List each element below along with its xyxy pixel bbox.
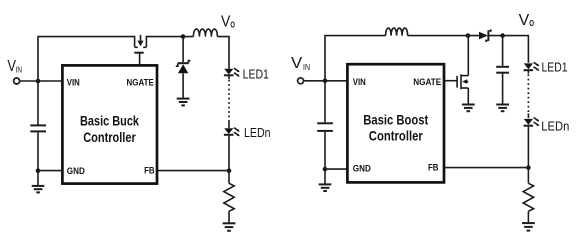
svg-text:VIN: VIN [67,78,80,88]
svg-text:LEDn: LEDn [244,125,271,140]
wire Q1 to switch node [146,36,193,38]
node output cap junction [500,33,505,38]
capacitor C2 (input cap, right circuit) [317,81,333,168]
LED LED1 (left circuit) [224,66,269,81]
ground below C2 (right) [319,184,332,191]
wire U2 FB pin to FB junction [444,167,528,169]
wire LEDn to FB junction (right) [527,127,529,168]
wire U2 GND pin to GND junction [325,168,347,170]
capacitor C3 (output cap) [496,36,509,104]
wire L1 to VO corner down to LED1 [217,37,229,69]
wire GND junction to ground [37,171,39,185]
wire VIN terminal to U2 VIN pin [303,80,347,82]
svg-text:V: V [291,55,303,72]
wire D1 anode to ground [182,73,184,98]
wire Q1 gate to U1 NGATE pin [139,53,141,66]
wire dotted LED string (left) [228,76,230,79]
wire VIN terminal to U1 VIN pin [19,80,62,82]
ground below R1 (left) [223,223,236,231]
svg-text:FB: FB [144,165,155,175]
svg-text:NGATE: NGATE [127,78,154,88]
svg-text:Basic Buck: Basic Buck [80,112,139,128]
node junction at VIN rail [36,79,41,84]
node switch node junction [181,34,186,39]
ground below R2 (right) [522,223,535,231]
wire FB junction to R2 [527,168,529,184]
ground below C3 [496,105,509,112]
svg-text:LED1: LED1 [243,66,269,81]
svg-text:Basic Boost: Basic Boost [363,111,428,127]
node VIN input terminal (left circuit) [7,58,22,84]
transistor Q2 (N-FET low-side switch) [457,74,468,89]
node VO label (right circuit) [519,12,534,29]
svg-text:GND: GND [67,166,85,176]
node VO label (left circuit) [221,14,235,31]
node junction at VIN rail (right) [323,79,328,84]
svg-text:LED1: LED1 [542,60,568,75]
wire U2 NGATE pin to Q2 gate [444,80,457,82]
svg-text:LEDn: LEDn [541,119,569,134]
node FB junction (left) [227,169,232,174]
svg-text:IN: IN [16,65,22,75]
wire R1 to ground [228,211,230,222]
transistor Q1 (P-FET high-side switch) [134,35,146,53]
svg-text:O: O [529,19,534,28]
wire VIN junction up and across to L2 [325,36,386,81]
svg-text:Controller: Controller [83,129,136,145]
diode D2 (boost rectifier, schottky) [479,29,491,42]
svg-text:IN: IN [303,62,310,72]
wire L2 to switch node [408,35,479,37]
wire R2 to ground [527,211,529,222]
wire Q2 source to ground [467,88,469,104]
wire FB junction to R1 [228,171,230,184]
svg-text:NGATE: NGATE [413,77,441,87]
capacitor C1 (input cap, left circuit) [30,81,46,170]
wire U1 GND pin to GND junction [38,170,62,172]
node switch node junction (right) [466,33,471,38]
node GND junction (left) [36,168,41,173]
resistor R2 (current sense) [523,183,533,211]
inductor L2 [386,28,408,36]
wire dotted LED string (right) [527,71,529,74]
wire GND junction to ground (right) [324,169,326,183]
inductor L1 [193,29,217,37]
LED LEDn (left circuit) [224,125,271,140]
wire D2 cathode to VO corner [488,36,528,63]
IC U2 Basic Boost Controller [347,64,444,182]
LED LED1 (right circuit) [524,60,568,75]
node VIN input terminal (right circuit) [291,55,310,84]
ground below Q2 [462,105,475,112]
wire LEDn to FB junction [228,136,230,171]
LED LEDn (right circuit) [524,118,570,134]
svg-text:V: V [519,12,530,29]
node FB junction (right) [526,165,531,170]
diode D1 (schottky catch diode) [176,61,191,74]
op-amp style IC U1 Basic Buck Controller [62,65,157,183]
svg-text:VIN: VIN [353,77,366,87]
svg-text:O: O [230,20,235,29]
wire VIN junction up and across top to Q1 [38,37,135,81]
svg-text:GND: GND [353,163,371,173]
resistor R1 (current sense) [224,183,234,211]
node GND junction (right) [323,167,328,172]
wire U1 FB pin to FB junction [157,170,229,172]
ground below D1 [177,99,190,106]
svg-text:V: V [221,14,231,31]
svg-text:FB: FB [428,163,439,173]
ground below C1 (left) [32,186,45,193]
svg-text:Controller: Controller [369,127,423,143]
wire switch node down to D1 [182,37,184,63]
wire Q2 drain to switch node [467,36,469,76]
